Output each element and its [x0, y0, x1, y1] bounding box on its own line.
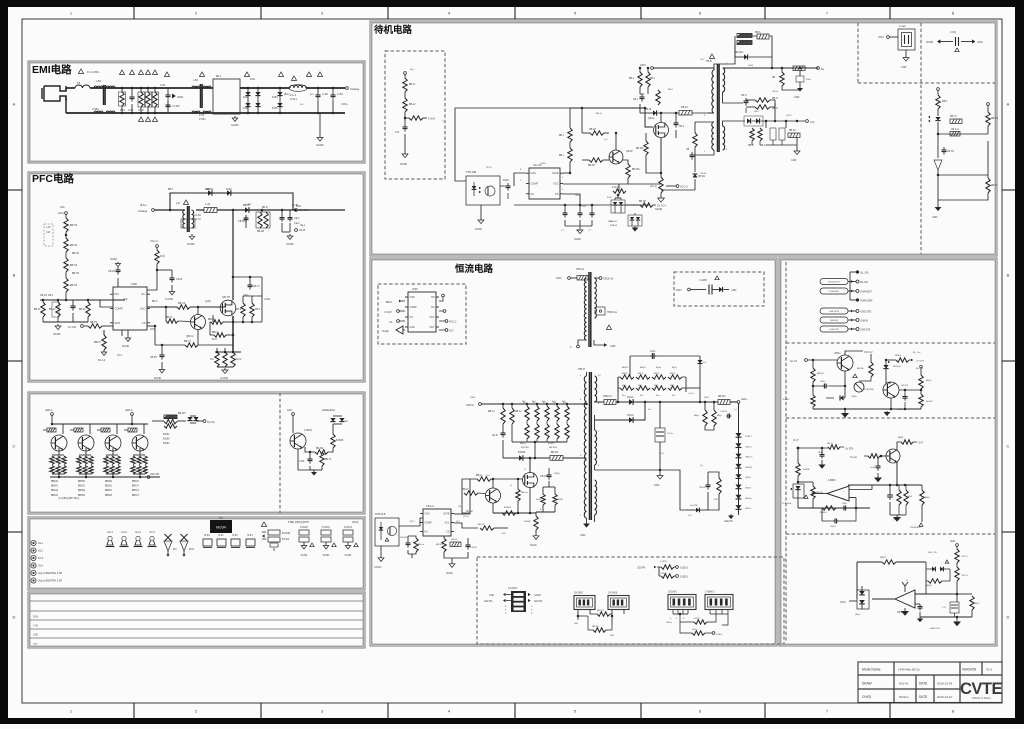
svg-text:CB-2H: CB-2H	[40, 295, 47, 297]
svg-text:BB2(u1: BB2(u1	[817, 373, 825, 375]
svg-text:VCC-O: VCC-O	[680, 186, 688, 189]
svg-text:L-B3: L-B3	[193, 80, 199, 82]
svg-text:(DCu): (DCu)	[463, 516, 469, 518]
svg-text:CHKD: CHKD	[862, 695, 872, 699]
svg-text:BB661: BB661	[105, 486, 113, 488]
svg-text:TB-B: TB-B	[706, 60, 712, 63]
svg-text:CB-W: CB-W	[540, 475, 547, 478]
svg-text:D-B1: D-B1	[250, 79, 256, 81]
svg-text:VCC: VCC	[429, 316, 434, 319]
svg-text:SGND: SGND	[574, 238, 581, 241]
svg-text:D-B3: D-B3	[205, 189, 211, 191]
svg-text:L-3A: L-3A	[246, 203, 251, 206]
svg-text:(A)cc+BSETRH 2.5K: (A)cc+BSETRH 2.5K	[38, 571, 62, 575]
svg-text:BD-1: BD-1	[216, 76, 222, 78]
svg-text:CB-1u1: CB-1u1	[951, 129, 960, 131]
svg-text:D-Bu2: D-Bu2	[627, 415, 634, 417]
svg-text:RB-1u: RB-1u	[488, 411, 495, 413]
svg-text:BB672: BB672	[132, 490, 140, 492]
svg-text:BB-Tm: BB-Tm	[746, 457, 753, 459]
svg-text:COMP: COMP	[531, 183, 539, 186]
svg-text:2C-Bu: 2C-Bu	[292, 205, 299, 207]
svg-text:C1u1: C1u1	[650, 351, 656, 353]
svg-text:CS: CS	[389, 321, 393, 324]
svg-text:B-W2(: B-W2(	[548, 443, 554, 445]
svg-text:EMI电路: EMI电路	[32, 63, 72, 76]
svg-text:GND: GND	[489, 595, 494, 597]
svg-text:B(2w: B(2w	[656, 367, 661, 369]
svg-text:PWM_REF: PWM_REF	[861, 300, 873, 303]
svg-text:OuT: OuT	[449, 330, 454, 333]
svg-text:GL3: GL3	[38, 556, 43, 560]
svg-text:GATE: GATE	[443, 513, 450, 516]
svg-text:BB-v: BB-v	[650, 78, 656, 80]
svg-text:KB-2: KB-2	[236, 309, 242, 311]
svg-text:CB(1(: CB(1(	[554, 473, 560, 475]
svg-text:RB-T2: RB-T2	[950, 116, 957, 118]
svg-text:G: G	[510, 485, 512, 487]
svg-text:CN-5017: CN-5017	[508, 587, 518, 590]
svg-text:BB-5v: BB-5v	[746, 508, 753, 510]
svg-text:BB-W7: BB-W7	[639, 201, 647, 203]
svg-text:BBCH: BBCH	[94, 341, 101, 344]
svg-text:CB-W: CB-W	[176, 278, 183, 281]
svg-text:BB2-4: BB2-4	[208, 319, 215, 321]
svg-text:BB(0): BB(0)	[622, 373, 628, 375]
svg-text:+: +	[909, 603, 911, 607]
svg-text:LB-W: LB-W	[694, 618, 700, 620]
svg-text:BB-H0: BB-H0	[70, 224, 78, 227]
svg-text:BB-1u: BB-1u	[596, 113, 603, 115]
svg-text:RB-TH: RB-TH	[991, 118, 998, 120]
svg-text:P-DM-BST: P-DM-BST	[829, 291, 840, 293]
svg-text:LED PN: LED PN	[534, 601, 543, 603]
svg-text:CS: CS	[410, 316, 414, 319]
svg-text:C-B1: C-B1	[337, 92, 343, 96]
svg-text:CB-5u: CB-5u	[772, 91, 779, 93]
svg-text:CB-W1: CB-W1	[901, 385, 909, 387]
svg-text:C-1u2: C-1u2	[899, 25, 906, 28]
svg-text:BB-u: BB-u	[629, 78, 635, 80]
svg-text:GND: GND	[177, 95, 183, 99]
svg-text:FU 4.2/5K...: FU 4.2/5K...	[87, 70, 101, 74]
svg-text:CB(u2: CB(u2	[830, 526, 837, 528]
svg-text:P-W2(2: P-W2(2	[344, 527, 353, 529]
svg-text:DB-2: DB-2	[754, 111, 760, 113]
svg-text:B2-T(: B2-T(	[962, 556, 968, 558]
svg-text:YIN: YIN	[33, 624, 38, 628]
svg-text:VCC: VCC	[553, 183, 558, 186]
svg-text:RB-10: RB-10	[681, 106, 688, 109]
svg-text:PTB-10B: PTB-10B	[466, 171, 476, 174]
svg-text:C6-1u: C6-1u	[667, 433, 674, 435]
svg-text:BB-T1: BB-T1	[166, 317, 173, 319]
svg-text:VISION & TECH: VISION & TECH	[972, 696, 991, 700]
svg-text:BB(1): BB(1)	[638, 373, 644, 375]
svg-text:R-C: R-C	[210, 359, 214, 361]
svg-text:P-W2(1: P-W2(1	[322, 527, 331, 529]
svg-text:(PC1): (PC1)	[486, 167, 492, 169]
svg-text:LED: LED	[610, 635, 615, 637]
svg-text:B-62: B-62	[232, 534, 238, 537]
svg-text:BB-x: BB-x	[559, 135, 565, 137]
svg-text:GU-4: GU-4	[149, 531, 155, 534]
svg-text:Ox STB: Ox STB	[916, 361, 924, 363]
svg-text:SGND: SGND	[345, 555, 352, 557]
svg-text:BECn: BECn	[386, 301, 393, 304]
svg-text:BB(uu: BB(uu	[476, 475, 483, 477]
svg-text:CHP(: CHP(	[840, 602, 846, 604]
svg-text:KB-1: KB-1	[679, 126, 685, 128]
svg-text:CN-5006: CN-5006	[608, 593, 618, 595]
svg-text:B-B63: B-B63	[163, 443, 170, 445]
svg-text:GND: GND	[731, 289, 737, 292]
svg-text:CY-B2: CY-B2	[172, 104, 180, 108]
svg-text:(u): (u)	[700, 465, 703, 467]
svg-text:CB-1u1: CB-1u1	[426, 505, 435, 508]
svg-text:BB650: BB650	[78, 481, 86, 483]
svg-text:B: B	[1007, 273, 1010, 278]
svg-text:CB-5H: CB-5H	[238, 220, 245, 223]
svg-text:OLED-: OLED-	[716, 634, 723, 636]
svg-text:BB-W1: BB-W1	[436, 544, 444, 546]
svg-text:C-GBB: C-GBB	[699, 279, 707, 282]
svg-text:SGND: SGND	[475, 228, 482, 231]
svg-text:MU: MU	[219, 517, 223, 520]
svg-text:L-3A: L-3A	[205, 203, 211, 206]
svg-text:BB-Su: BB-Su	[746, 498, 753, 500]
svg-text:B-B1: B-B1	[536, 499, 542, 501]
svg-text:LED-PN: LED-PN	[150, 473, 159, 476]
svg-text:GAS: GAS	[425, 513, 430, 516]
svg-text:A: A	[1007, 102, 1010, 107]
svg-text:BL_Cm: BL_Cm	[913, 352, 920, 354]
svg-text:CB-x: CB-x	[48, 295, 54, 297]
svg-text:SGND: SGND	[323, 555, 330, 557]
svg-text:(B-2u): (B-2u)	[140, 205, 147, 207]
svg-text:CB-x: CB-x	[633, 99, 639, 101]
svg-text:SGND: SGND	[110, 258, 117, 261]
svg-text:(B(u1: (B(u1	[855, 614, 861, 616]
svg-text:(PGD): (PGD)	[352, 522, 359, 524]
svg-text:CS: CS	[142, 321, 146, 325]
svg-text:SGND: SGND	[231, 123, 239, 127]
svg-text:ZB-W1: ZB-W1	[698, 176, 706, 178]
svg-text:R-Cx: R-Cx	[212, 339, 218, 341]
svg-text:RB-W2: RB-W2	[718, 396, 726, 398]
svg-text:BB(1A: BB(1A	[857, 367, 864, 370]
svg-text:C-B21: C-B21	[264, 299, 271, 301]
svg-text:OLED-2: OLED-2	[680, 568, 689, 570]
svg-text:SGND: SGND	[53, 332, 61, 336]
svg-text:Ox-uO: Ox-uO	[850, 457, 857, 459]
svg-text:C-X2: C-X2	[128, 110, 134, 112]
svg-text:C-B6: C-B6	[299, 461, 305, 463]
svg-text:SGND: SGND	[316, 143, 324, 147]
svg-text:R-W: R-W	[160, 255, 166, 258]
svg-text:L-B2: L-B2	[96, 81, 102, 83]
svg-text:D-B3: D-B3	[272, 96, 278, 99]
svg-text:LED(: LED(	[950, 541, 955, 543]
svg-text:LT-B2: LT-B2	[92, 107, 99, 111]
svg-text:CB12: CB12	[820, 381, 826, 383]
svg-text:C-B4: C-B4	[160, 85, 166, 87]
svg-text:BL_ON: BL_ON	[861, 272, 869, 275]
svg-text:BL-ON: BL-ON	[916, 368, 923, 370]
svg-text:DIM STB: DIM STB	[861, 329, 871, 332]
svg-text:RB-D: RB-D	[760, 145, 766, 147]
svg-text:SGND: SGND	[122, 345, 129, 348]
svg-text:GU-3: GU-3	[135, 531, 141, 534]
svg-text:GAS: GAS	[531, 172, 537, 175]
svg-text:240V: 240V	[640, 64, 646, 67]
svg-text:CE-x: CE-x	[300, 225, 306, 227]
svg-text:Ox STB: Ox STB	[845, 449, 854, 451]
svg-text:GL4: GL4	[38, 564, 43, 568]
svg-text:DIM-STB: DIM-STB	[830, 329, 840, 331]
svg-text:BB-W7: BB-W7	[588, 165, 596, 167]
svg-text:V1.0: V1.0	[986, 668, 993, 672]
svg-text:BB-24: BB-24	[79, 309, 86, 311]
svg-text:OLP: OLP	[287, 408, 292, 412]
svg-text:LG-3: LG-3	[290, 93, 296, 97]
svg-text:GAND: GAND	[534, 594, 541, 597]
svg-text:/SE: /SE	[33, 633, 38, 637]
svg-text:CB-C2: CB-C2	[947, 151, 955, 153]
svg-text:LED PN: LED PN	[484, 601, 493, 603]
svg-text:C.OUP: C.OUP	[384, 311, 392, 314]
svg-text:SGND: SGND	[530, 545, 537, 547]
svg-text:B(0): B(0)	[622, 385, 626, 387]
svg-text:VCC: VCC	[444, 522, 449, 525]
svg-text:(240): (240)	[470, 397, 475, 399]
svg-text:DC-OUT: DC-OUT	[299, 209, 309, 212]
svg-text:C-B2B: C-B2B	[660, 573, 667, 575]
svg-text:BB640: BB640	[51, 481, 59, 483]
svg-text:CB-W: CB-W	[700, 173, 707, 175]
svg-text:BB-W2u: BB-W2u	[549, 447, 558, 449]
svg-text:CS: CS	[446, 531, 450, 534]
svg-text:BB-WG: BB-WG	[632, 169, 640, 171]
svg-text:BB-H1: BB-H1	[70, 244, 78, 247]
svg-text:GL2: GL2	[38, 549, 43, 553]
svg-text:(12V): (12V)	[786, 115, 792, 117]
svg-text:S-GND: S-GND	[165, 298, 173, 301]
svg-text:xxx: xxx	[33, 642, 38, 646]
svg-text:D-B6: D-B6	[243, 107, 249, 110]
svg-text:B-B65: B-B65	[163, 439, 170, 441]
svg-text:BB670: BB670	[132, 481, 140, 483]
svg-text:(Q-B): (Q-B)	[205, 301, 211, 303]
svg-text:GLD: GLD	[140, 307, 146, 311]
svg-text:LG-30: LG-30	[194, 214, 201, 217]
svg-text:U-B: U-B	[123, 298, 128, 301]
svg-text:SGND: SGND	[655, 208, 662, 211]
svg-text:BB-H2: BB-H2	[70, 264, 78, 267]
svg-text:BB(4(: BB(4(	[926, 585, 932, 587]
svg-text:CB-W: CB-W	[451, 539, 458, 541]
svg-text:C-BT: C-BT	[713, 499, 719, 501]
svg-text:LB-(u: LB-(u	[692, 629, 698, 631]
svg-text:C-W1: C-W1	[950, 31, 957, 34]
svg-text:BB-2B: BB-2B	[257, 230, 264, 233]
svg-text:DB-W: DB-W	[645, 109, 652, 111]
svg-text:BB660: BB660	[105, 481, 113, 483]
svg-text:(A)cc+BSETRH 2.5K: (A)cc+BSETRH 2.5K	[38, 579, 62, 583]
svg-text:C-BTN: C-BTN	[720, 411, 727, 413]
svg-text:待机电路: 待机电路	[374, 24, 413, 36]
svg-text:CB: CB	[458, 506, 462, 508]
svg-text:CVTE: CVTE	[960, 680, 1003, 698]
svg-text:C-BTB: C-BTB	[470, 547, 477, 549]
svg-text:240V: 240V	[676, 289, 682, 292]
svg-text:TB52-1#: TB52-1#	[603, 396, 613, 398]
svg-text:K-W-P: K-W-P	[612, 187, 619, 189]
svg-text:GND: GND	[932, 216, 938, 219]
svg-text:SGND: SGND	[400, 163, 407, 166]
svg-text:GND STB: GND STB	[861, 311, 872, 314]
svg-text:(PC): (PC)	[410, 521, 415, 523]
svg-text:Ox-P: Ox-P	[793, 440, 799, 442]
svg-text:BB-H3: BB-H3	[72, 273, 79, 275]
svg-text:BB-22: BB-22	[49, 309, 56, 311]
svg-text:U(B2u: U(B2u	[834, 353, 841, 355]
svg-text:CN2-B-0: CN2-B-0	[668, 592, 678, 594]
svg-text:C-Bu: C-Bu	[243, 295, 249, 297]
svg-text:RB-K2: RB-K2	[789, 130, 796, 132]
svg-text:GND: GND	[901, 66, 907, 69]
svg-text:C: C	[1007, 444, 1010, 449]
svg-text:BB(2u: BB(2u	[520, 443, 527, 445]
svg-text:SGND: SGND	[187, 242, 195, 246]
svg-text:B-W2(B: B-W2(B	[282, 533, 291, 535]
svg-text:CB-06: CB-06	[699, 487, 706, 489]
svg-text:GU-1: GU-1	[107, 531, 113, 534]
svg-text:BB-1P: BB-1P	[478, 524, 485, 526]
svg-text:B-B2: B-B2	[558, 499, 564, 501]
svg-text:P-W2(0: P-W2(0	[300, 527, 309, 529]
svg-text:B-BW6: B-BW6	[504, 507, 512, 509]
svg-text:SGAE: SGAE	[382, 330, 389, 333]
svg-text:Voltage: Voltage	[138, 209, 148, 213]
svg-text:BBCuu: BBCuu	[521, 492, 529, 494]
svg-text:PW-M-BST: PW-M-BST	[910, 527, 922, 529]
svg-text:PCB-W1A: PCB-W1A	[864, 388, 874, 391]
svg-text:RB-W: RB-W	[991, 185, 998, 187]
svg-text:Dx-PDF: Dx-PDF	[690, 505, 698, 507]
svg-text:(T1): (T1)	[700, 59, 704, 61]
svg-text:BB-2(: BB-2(	[262, 207, 268, 209]
svg-text:R-BD: R-BD	[503, 180, 509, 182]
svg-text:DIM-NU: DIM-NU	[830, 320, 838, 322]
svg-text:BB(u7: BB(u7	[462, 489, 469, 491]
svg-text:COMP: COMP	[115, 307, 123, 311]
svg-text:D(x-W): D(x-W)	[207, 421, 215, 424]
svg-text:L-W: L-W	[46, 226, 51, 229]
svg-text:D-B5: D-B5	[272, 107, 278, 110]
svg-text:CB-BT: CB-BT	[150, 357, 157, 359]
svg-text:GU-2: GU-2	[121, 531, 127, 534]
svg-text:OUT: OUT	[429, 326, 435, 329]
svg-text:B-BTB5: B-BTB5	[521, 447, 529, 449]
svg-text:SGND: SGND	[301, 555, 308, 557]
svg-text:B(2): B(2)	[654, 385, 658, 387]
svg-text:BB642: BB642	[51, 490, 59, 492]
svg-text:12V: 12V	[810, 121, 815, 124]
svg-text:B-60: B-60	[204, 534, 210, 537]
svg-text:MU2: MU2	[189, 548, 195, 551]
svg-text:2C.OD: 2C.OD	[68, 325, 76, 329]
svg-text:D: D	[1007, 615, 1010, 620]
svg-text:QB-TH: QB-TH	[222, 296, 230, 299]
svg-text:BB(3): BB(3)	[670, 373, 676, 375]
svg-text:COMP: COMP	[410, 306, 418, 309]
svg-text:BB-W1s: BB-W1s	[735, 52, 744, 54]
svg-text:BL-ON: BL-ON	[861, 281, 869, 284]
svg-text:C-B1u: C-B1u	[341, 104, 348, 106]
svg-text:DATE: DATE	[919, 695, 927, 699]
svg-text:UHO: UHO	[878, 36, 884, 39]
svg-text:RB-1P: RB-1P	[589, 128, 596, 131]
svg-text:QB-W: QB-W	[626, 150, 633, 153]
svg-text:WJ(-W: WJ(-W	[899, 682, 908, 686]
svg-text:-: -	[909, 594, 910, 598]
svg-text:C-NBW-1: C-NBW-1	[705, 592, 716, 594]
svg-text:BB651: BB651	[78, 486, 86, 488]
svg-text:RB-H: RB-H	[772, 98, 778, 100]
svg-text:BB-T: BB-T	[168, 189, 174, 191]
svg-text:BB(N: BB(N	[898, 437, 904, 439]
svg-text:L6A: L6A	[60, 205, 65, 209]
svg-text:LED-x: LED-x	[666, 622, 673, 624]
svg-text:SGND: SGND	[154, 377, 161, 380]
svg-text:恒流电路: 恒流电路	[455, 263, 494, 275]
svg-text:2016-12-10: 2016-12-10	[937, 695, 953, 699]
svg-text:CS: CS	[555, 193, 559, 196]
svg-text:RB(u: RB(u	[694, 415, 700, 417]
svg-text:B(1): B(1)	[638, 385, 642, 387]
svg-text:BB(2u: BB(2u	[622, 367, 629, 369]
svg-text:LED-PN: LED-PN	[724, 520, 733, 523]
svg-text:CB: CB	[686, 149, 690, 151]
svg-text:SGND: SGND	[446, 573, 453, 575]
svg-text:BB652: BB652	[78, 490, 86, 492]
svg-text:LED: LED	[574, 623, 579, 625]
svg-text:PWM-BST: PWM-BST	[861, 291, 873, 294]
svg-text:BB-C: BB-C	[152, 301, 158, 303]
svg-text:BB-W7: BB-W7	[597, 610, 605, 612]
svg-text:TB520-1#: TB520-1#	[603, 279, 614, 281]
svg-text:V(: V(	[906, 580, 908, 582]
svg-text:SGND: SGND	[926, 41, 933, 44]
svg-text:HCC-2: HCC-2	[449, 321, 457, 324]
svg-text:DRAW: DRAW	[862, 682, 872, 686]
svg-text:B(3): B(3)	[670, 385, 674, 387]
svg-text:BB-1(: BB-1(	[746, 477, 752, 479]
svg-text:B-61: B-61	[218, 534, 224, 537]
svg-text:CB-2: CB-2	[575, 195, 581, 197]
svg-text:Mode Name: Mode Name	[862, 668, 881, 672]
svg-text:CE-1: CE-1	[294, 217, 300, 220]
svg-text:B-W-BLON: B-W-BLON	[829, 282, 840, 284]
svg-text:C-W-D: C-W-D	[428, 118, 436, 121]
svg-text:PCB-W-B: PCB-W-B	[375, 513, 386, 516]
svg-text:B-BT2: B-BT2	[746, 436, 753, 438]
svg-text:BB-T1: BB-T1	[325, 459, 332, 461]
svg-text:S-DKO: S-DKO	[374, 567, 381, 569]
svg-text:PFC电路: PFC电路	[32, 172, 74, 185]
svg-text:B(2uW: B(2uW	[926, 401, 932, 403]
